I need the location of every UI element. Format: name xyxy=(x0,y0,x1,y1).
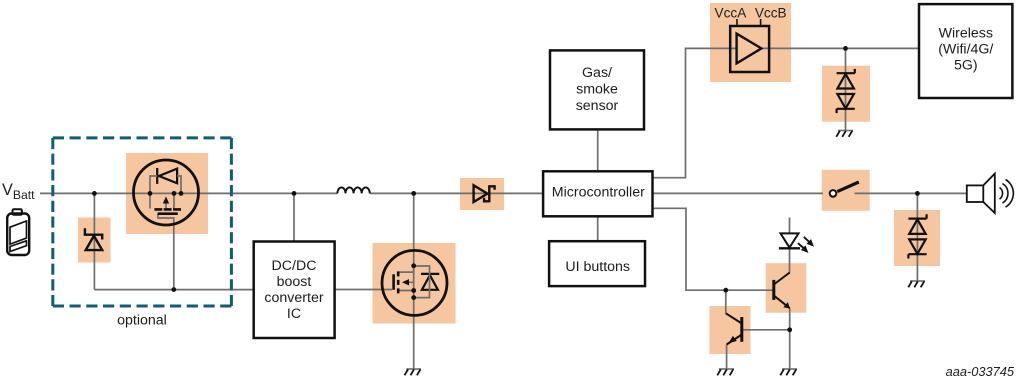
wire TVS2 branch xyxy=(916,193,918,281)
svg-text:optional: optional xyxy=(117,313,167,329)
Gas/smoke sensor box xyxy=(550,50,644,129)
node speaker TVS tap xyxy=(915,191,920,196)
highlight NMOS Q3 xyxy=(373,243,456,324)
wire Q1 emitter node to Q2 base xyxy=(743,329,790,331)
wire TVS1 branch xyxy=(845,48,847,130)
wire main VBatt line left xyxy=(40,192,337,194)
node NMOS internal top xyxy=(411,263,416,268)
inductor L1 xyxy=(337,187,369,193)
ideal diode D2 xyxy=(474,185,495,202)
wire microcontroller to UI buttons xyxy=(597,217,599,243)
wire LED cathode to Q1 collector xyxy=(789,249,791,272)
node Q1 emitter / Q2 base xyxy=(787,327,792,332)
node NMOS internal bottom xyxy=(411,295,416,300)
PMOS channel segments xyxy=(154,208,181,211)
svg-text:(Wifi/4G/: (Wifi/4G/ xyxy=(938,42,993,58)
PMOS gate bar xyxy=(158,212,178,215)
TVS2 (bidirectional suppressor) xyxy=(908,214,926,258)
NMOS channel segments xyxy=(397,271,400,293)
svg-text:smoke: smoke xyxy=(576,82,618,98)
battery icon xyxy=(7,209,29,255)
wire Q1 emitter to ground xyxy=(789,308,791,369)
svg-text:sensor: sensor xyxy=(576,98,619,114)
NMOS gate bar xyxy=(392,274,395,290)
svg-text:Wireless: Wireless xyxy=(939,26,993,42)
node PMOS gate net xyxy=(171,287,176,292)
wire level shifter to wireless xyxy=(762,47,919,49)
Wireless box xyxy=(919,4,1012,98)
speaker xyxy=(967,174,1014,213)
wire sensor to microcontroller xyxy=(597,130,599,171)
highlight level shifter U2 xyxy=(710,3,791,82)
wire Q2 collector xyxy=(725,290,727,313)
node junction dots xyxy=(92,46,920,332)
highlight switch S1 xyxy=(822,170,870,211)
svg-text:5G): 5G) xyxy=(954,58,978,74)
LED arrows xyxy=(798,237,809,248)
svg-text:boost: boost xyxy=(277,274,312,290)
TVS1 (bidirectional suppressor) xyxy=(837,69,855,113)
ground NMOS xyxy=(405,369,422,375)
svg-text:converter: converter xyxy=(264,290,323,306)
ground TVS2 xyxy=(908,281,925,287)
wire NMOS source to ground xyxy=(413,298,415,369)
node Q2 collector tap xyxy=(723,288,728,293)
pin VccA xyxy=(736,19,738,26)
svg-text:DC/DC: DC/DC xyxy=(272,258,317,274)
highlight PMOS load switch xyxy=(126,153,208,234)
PMOS body diode xyxy=(159,169,177,184)
highlight transistor Q1 xyxy=(766,263,807,313)
highlight ideal diode D2 xyxy=(460,178,504,210)
PMOS body arrow stub xyxy=(165,199,167,209)
highlight TVS1 xyxy=(822,66,870,122)
wire PMOS gate lead xyxy=(158,214,174,290)
svg-text:VccB: VccB xyxy=(755,6,787,21)
NMOS Q3 (circle) xyxy=(382,250,447,315)
pin VccB xyxy=(760,19,762,26)
node PMOS diode left xyxy=(148,191,153,196)
NMOS diode branch wires xyxy=(414,266,430,298)
svg-text:VccA: VccA xyxy=(715,6,748,21)
level shifter U2 xyxy=(715,6,787,73)
PMOS load switch U3 (circle) xyxy=(134,160,199,225)
node NMOS drain tap xyxy=(411,191,416,196)
svg-text:aaa-033745: aaa-033745 xyxy=(946,364,1015,379)
node PMOS diode right xyxy=(179,191,184,196)
wire switch to speaker xyxy=(855,192,967,194)
highlight zener D1 xyxy=(78,218,111,263)
wire NMOS drain xyxy=(413,193,415,266)
svg-text:Gas/: Gas/ xyxy=(582,65,612,81)
wire main line microcontroller to switch xyxy=(653,192,824,194)
PMOS channel stubs xyxy=(150,193,174,208)
transistor Q1 (NPN) xyxy=(774,273,790,309)
wire optional bottom net xyxy=(94,289,254,291)
svg-text:IC: IC xyxy=(287,306,301,322)
DC/DC boost converter IC box xyxy=(254,242,335,339)
node wireless TVS tap xyxy=(843,46,848,51)
wire microcontroller to LED driver xyxy=(653,208,773,290)
wire zener branch down xyxy=(93,193,95,289)
highlight transistor Q2 xyxy=(710,306,751,354)
optional dashed box xyxy=(53,138,232,306)
ground Q2 xyxy=(717,369,734,375)
UI buttons box xyxy=(549,241,645,286)
LED xyxy=(779,233,813,252)
node NMOS internal mid xyxy=(411,288,416,293)
NMOS body arrow stub xyxy=(405,281,414,283)
ground Q1 xyxy=(780,369,797,375)
NMOS body diode xyxy=(422,275,438,290)
svg-text:Microcontroller: Microcontroller xyxy=(552,185,645,201)
zener diode D1 xyxy=(85,228,102,250)
svg-text:UI buttons: UI buttons xyxy=(565,259,630,275)
ground TVS1 xyxy=(836,131,853,137)
node zener tap xyxy=(92,191,97,196)
NMOS source column xyxy=(413,266,415,298)
node DC/DC input tap xyxy=(292,191,297,196)
wire microcontroller to level shifter xyxy=(653,48,737,177)
wire DC/DC output to NMOS gate xyxy=(335,289,392,291)
node PMOS source xyxy=(172,191,177,196)
wire main line inductor to microcontroller xyxy=(370,192,543,194)
wire LED anode stub xyxy=(789,218,791,234)
transistor Q2 (NPN mirrored) xyxy=(726,313,742,344)
NMOS channel stubs xyxy=(400,266,414,291)
switch S1 xyxy=(830,182,859,197)
Microcontroller box xyxy=(543,171,652,216)
PMOS diode branch wires xyxy=(150,176,181,193)
wire Q2 emitter to ground xyxy=(726,345,728,370)
wire DC/DC top to main line xyxy=(293,193,295,242)
highlight TVS2 xyxy=(894,210,940,266)
